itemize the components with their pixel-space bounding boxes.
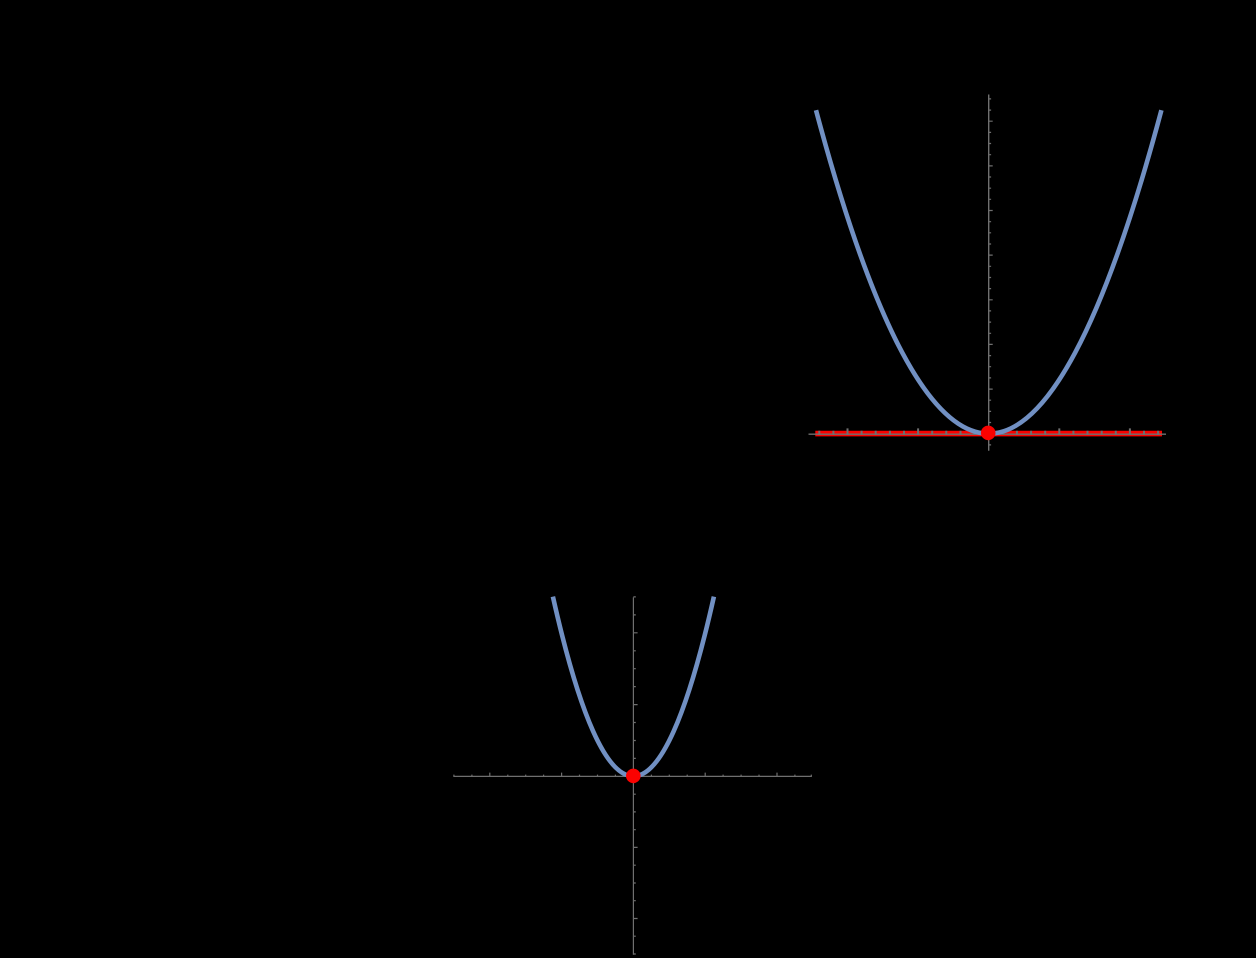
tangent line at minimum (red, top plot) [815, 431, 1162, 437]
y-axis line (top plot) [988, 95, 990, 451]
vertex point (red dot, top plot) [981, 426, 996, 441]
y-axis ticks (bottom plot) [633, 597, 637, 954]
parabola curve (bottom plot) [553, 597, 714, 777]
y-axis line (bottom plot) [632, 597, 634, 954]
vertex point (red dot, bottom plot) [626, 769, 641, 784]
x-axis line (bottom plot) [454, 775, 812, 777]
y-axis ticks (top plot) [989, 99, 993, 445]
x-axis ticks (bottom plot) [454, 773, 811, 777]
x-axis line (top plot) [809, 433, 1167, 435]
parabola curve (top plot) [816, 110, 1161, 433]
x-axis ticks (top plot) [819, 428, 1158, 435]
